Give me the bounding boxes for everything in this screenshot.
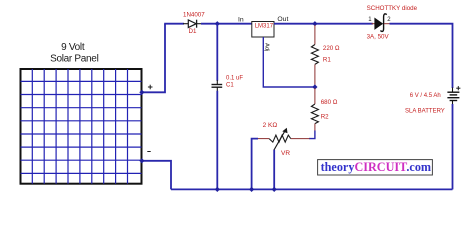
- battery BT1: [447, 88, 459, 105]
- svg-text:R1: R1: [323, 57, 331, 64]
- wire cap branch lower: [216, 91, 218, 190]
- wire Adj pin down: [263, 37, 315, 87]
- svg-text:Out: Out: [277, 16, 288, 23]
- junction node minus terminal: [139, 158, 144, 163]
- logo box theoryCIRCUIT.com: [318, 160, 433, 175]
- capacitor C1: [212, 80, 223, 91]
- minus sign panel: [147, 151, 150, 153]
- svg-text:D1: D1: [189, 28, 197, 35]
- wire bottom rail: [171, 188, 453, 190]
- wire top rail left of D1: [164, 23, 184, 25]
- wire top rail schottky to right rail down to battery: [390, 24, 453, 88]
- wire pot left lead down to rail: [252, 139, 258, 190]
- wire cap branch upper: [216, 24, 218, 81]
- svg-text:3A, 50V: 3A, 50V: [367, 34, 390, 41]
- wire plus terminal to riser: [142, 24, 165, 93]
- junction node plus terminal: [139, 90, 144, 95]
- regulator U1 LM317: [252, 22, 274, 38]
- label 9 Volt Solar Panel: [50, 42, 98, 64]
- svg-text:1N4007: 1N4007: [183, 11, 205, 18]
- svg-text:6 V / 4.5 Ah: 6 V / 4.5 Ah: [410, 93, 441, 99]
- svg-text:VR: VR: [281, 150, 290, 157]
- resistor R1 220 ohm: [311, 25, 318, 86]
- battery plus sign: [456, 86, 460, 90]
- svg-text:LM317: LM317: [255, 24, 274, 30]
- plus sign panel: [148, 85, 153, 90]
- svg-text:0.1 uF: 0.1 uF: [226, 75, 243, 81]
- wire minus terminal to bottom rail: [142, 161, 171, 190]
- svg-text:Solar Panel: Solar Panel: [50, 53, 98, 64]
- wire top rail D1 to LM317 In: [201, 23, 252, 25]
- svg-text:SCHOTTKY diode: SCHOTTKY diode: [367, 5, 418, 12]
- svg-text:220 Ω: 220 Ω: [323, 45, 340, 52]
- wiper arrow: [274, 130, 286, 151]
- svg-text:theoryCIRCUIT.com: theoryCIRCUIT.com: [321, 160, 431, 174]
- wire R2 bottom to pot right lead: [309, 131, 315, 139]
- svg-text:In: In: [238, 17, 244, 24]
- svg-text:SLA BATTERY: SLA BATTERY: [405, 109, 445, 115]
- junction node pot left bottom: [249, 187, 254, 192]
- schottky diode D2: [372, 14, 391, 32]
- svg-text:9 Volt: 9 Volt: [61, 42, 85, 53]
- solar panel PV1 grid: [21, 69, 142, 184]
- wire pot wiper down to rail: [273, 150, 275, 190]
- junction node wiper bottom: [272, 187, 277, 192]
- junction node R1 top: [312, 21, 317, 26]
- junction node cap branch: [215, 21, 220, 26]
- wire right rail battery to bottom rail: [452, 104, 454, 189]
- svg-text:C1: C1: [226, 83, 234, 89]
- potentiometer VR 2K: [258, 128, 310, 151]
- diode D1 1N4007: [183, 20, 202, 28]
- svg-text:R2: R2: [321, 114, 329, 121]
- junction node Adj / R1 / R2: [312, 84, 317, 89]
- wire top rail Out to schottky: [274, 23, 373, 25]
- svg-text:680 Ω: 680 Ω: [321, 99, 338, 106]
- junction node cap bottom: [215, 187, 220, 192]
- resistor R2 680 ohm: [311, 88, 318, 131]
- svg-text:2 KΩ: 2 KΩ: [263, 122, 278, 129]
- svg-text:Adj: Adj: [263, 43, 269, 51]
